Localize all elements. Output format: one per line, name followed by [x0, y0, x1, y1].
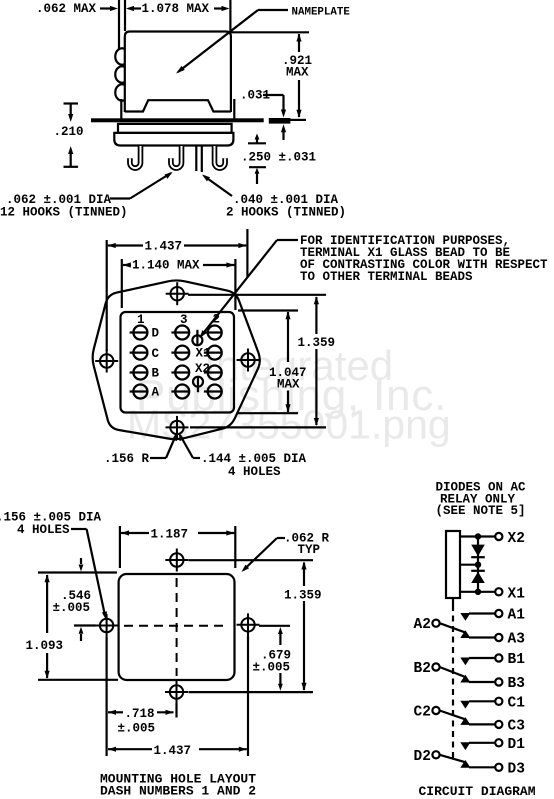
svg-text:±.005: ±.005: [118, 722, 156, 736]
svg-text:1.140 MAX: 1.140 MAX: [132, 259, 200, 273]
terminal A3: [495, 634, 502, 641]
dim 1.093: [46, 575, 48, 633]
wire coil top to X2: [460, 535, 495, 537]
svg-text:MAX: MAX: [286, 66, 309, 80]
dim .718: [108, 710, 116, 715]
ext line square left up: [121, 259, 123, 308]
terminal C1: [495, 698, 502, 705]
ext line sq right up: [234, 526, 236, 568]
contact D1 fixed NO: [460, 742, 470, 750]
base plate: [114, 133, 233, 146]
svg-text:B: B: [152, 367, 160, 381]
svg-text:1.187: 1.187: [151, 528, 189, 542]
dim 1.078 MAX arrows: [126, 6, 134, 11]
extension line can right edge: [229, 0, 231, 32]
svg-text:MAX: MAX: [277, 378, 300, 392]
relay can outline: [125, 32, 231, 113]
terminal A1: [495, 610, 502, 617]
armature linkage dashed: [452, 605, 454, 758]
svg-text:A2: A2: [414, 617, 431, 633]
terminal C3: [495, 721, 502, 728]
diode CR2: [471, 570, 485, 572]
ext right hole down: [247, 636, 249, 756]
leader .062 R: [277, 537, 285, 539]
terminal A2: [208, 385, 222, 399]
terminal B3: [175, 366, 189, 380]
ext right hole right: [259, 625, 290, 627]
terminal B3: [495, 678, 502, 685]
svg-text:2 HOOKS (TINNED): 2 HOOKS (TINNED): [226, 206, 346, 220]
junction dot bottom: [475, 589, 481, 595]
terminal A2: [432, 620, 439, 627]
terminal D1: [495, 739, 502, 746]
svg-text:.718: .718: [125, 707, 155, 721]
terminal B1: [133, 366, 147, 380]
svg-text:D: D: [152, 327, 160, 341]
leader note to X1 bead: [277, 239, 298, 241]
svg-text:C3: C3: [508, 718, 525, 734]
movable arm C: [440, 711, 465, 720]
svg-text:±.005: ±.005: [53, 601, 91, 615]
dim .546: [79, 565, 84, 572]
svg-text:1.093: 1.093: [26, 639, 64, 653]
dim .250 lower arrow: [249, 166, 266, 168]
svg-text:NAMEPLATE: NAMEPLATE: [292, 7, 351, 19]
svg-text:X1: X1: [196, 347, 211, 361]
layout hole left: [100, 619, 113, 632]
mounting hole top: [171, 287, 184, 300]
junction dot middle: [475, 562, 481, 568]
dim 1.359 mid: [315, 297, 317, 334]
dim 1.187: [121, 530, 129, 535]
svg-text:B2: B2: [414, 661, 431, 677]
ext line left hole up: [106, 240, 108, 351]
dim 1.359 layout: [303, 563, 305, 587]
svg-text:B1: B1: [508, 652, 526, 668]
horizontal centerline dashed: [124, 625, 229, 627]
svg-text:.250 ±.031: .250 ±.031: [241, 151, 316, 165]
dim leader .062 arrow: [100, 7, 112, 9]
svg-text:A1: A1: [508, 608, 526, 624]
svg-text:D1: D1: [508, 737, 526, 753]
svg-text:1.359: 1.359: [284, 589, 322, 603]
side hook bump 1: [115, 48, 125, 64]
glass bead X1 terminal: [192, 335, 202, 345]
svg-text:TYP: TYP: [298, 543, 321, 557]
terminal B1: [495, 654, 502, 661]
svg-text:DASH NUMBERS 1 AND 2: DASH NUMBERS 1 AND 2: [100, 784, 256, 799]
contact B1 fixed NO: [460, 658, 470, 666]
movable arm A: [440, 623, 465, 632]
svg-text:1.359: 1.359: [298, 336, 336, 350]
svg-text:X1: X1: [508, 586, 526, 602]
terminal D1: [133, 326, 147, 340]
movable arm B: [440, 667, 465, 677]
terminal X1: [495, 588, 502, 595]
svg-text:1.437: 1.437: [154, 744, 192, 758]
svg-text:D3: D3: [508, 761, 525, 777]
mounting hole bottom: [170, 421, 183, 434]
ext line square bottom right: [238, 412, 298, 414]
side hook bump 2: [115, 66, 125, 82]
mounting hole left: [100, 354, 113, 367]
contact A3 fixed NC: [460, 630, 470, 638]
case outline octagon: [93, 280, 260, 439]
ext sq top left: [38, 571, 117, 573]
leader 12 hooks: [110, 197, 130, 199]
terminal C3: [175, 346, 189, 360]
mounting flange bar: [91, 118, 264, 122]
extension line left of side bumps: [118, 0, 120, 49]
svg-text:1.078 MAX: 1.078 MAX: [142, 2, 210, 16]
terminal C2: [208, 346, 222, 360]
hook 4: [215, 146, 226, 168]
svg-text:A: A: [152, 386, 160, 400]
terminal A3: [175, 385, 189, 399]
ext sq bottom left: [38, 679, 118, 681]
terminal B2: [432, 663, 439, 670]
extension line can left edge: [124, 0, 126, 31]
svg-text:1.437: 1.437: [145, 240, 183, 254]
ext bottom hole down: [175, 703, 177, 718]
glass bead X2 terminal: [193, 377, 203, 387]
svg-text:4 HOLES: 4 HOLES: [228, 465, 281, 479]
layout hole top: [170, 553, 183, 566]
terminal square: [121, 312, 235, 413]
ext line square right up: [234, 259, 236, 310]
dim 1.437 layout: [108, 747, 116, 752]
contact C3 fixed NC: [460, 717, 470, 725]
svg-text:A3: A3: [508, 632, 525, 648]
coil K1: [446, 531, 460, 598]
ext line sq left up: [119, 526, 121, 568]
side hook bump 3: [115, 84, 125, 100]
ext bottom hole right: [189, 691, 314, 693]
svg-text:D2: D2: [414, 749, 431, 765]
left skirt edge: [120, 99, 122, 119]
vertical centerline dashed: [176, 578, 178, 676]
leader 2 hooks: [204, 176, 232, 196]
svg-text:B3: B3: [508, 676, 525, 692]
junction dot top: [475, 533, 481, 539]
dim 1.047 MAX mid: [287, 312, 289, 362]
dim 1.437 mid: [108, 243, 116, 248]
ext line bottom hole right: [190, 426, 326, 428]
svg-text:X2: X2: [195, 362, 210, 376]
svg-text:X2: X2: [508, 531, 525, 547]
wire coil middle tap: [460, 564, 478, 566]
ext left hole left: [74, 624, 96, 626]
dim .679: [278, 627, 283, 634]
svg-text:.156 R: .156 R: [104, 452, 150, 466]
wire coil bottom to X1: [460, 591, 495, 593]
base rect: [118, 124, 232, 133]
svg-text:TO OTHER TERMINAL BEADS: TO OTHER TERMINAL BEADS: [300, 270, 473, 284]
svg-text:C1: C1: [508, 695, 526, 711]
ext top hole right: [189, 559, 314, 561]
svg-text:(SEE NOTE 5]: (SEE NOTE 5]: [436, 504, 526, 518]
svg-text:12 HOOKS (TINNED): 12 HOOKS (TINNED): [0, 206, 128, 220]
terminal D2: [208, 326, 222, 340]
leader 4 holes: [71, 528, 87, 530]
contact C1 fixed NO: [460, 701, 470, 709]
contact D3 fixed NC: [460, 760, 470, 768]
contact B3 fixed NC: [460, 675, 470, 683]
terminal C1: [133, 346, 147, 360]
wire armature link solid: [452, 598, 454, 605]
mounting hole right: [241, 353, 254, 366]
dim .250 upper arrow: [248, 142, 266, 144]
leader .156 R: [150, 457, 166, 459]
svg-text:±.005: ±.005: [253, 661, 291, 675]
svg-text:4 HOLES: 4 HOLES: [17, 523, 70, 537]
ext line top hole right: [188, 294, 326, 296]
wire diode branch: [477, 537, 479, 592]
terminal C2: [432, 707, 439, 714]
svg-text:C2: C2: [414, 705, 431, 721]
mounting square outline: [119, 574, 235, 680]
dim .210 arrows: [64, 102, 79, 104]
terminal D2: [432, 751, 439, 758]
terminal D3: [175, 326, 189, 340]
layout hole bottom: [170, 685, 183, 698]
diode CR1: [471, 545, 485, 557]
ext left hole down: [105, 637, 107, 756]
leader .144: [193, 457, 200, 459]
movable arm D: [440, 755, 465, 762]
svg-text:.210: .210: [54, 125, 84, 139]
dim text .921 MAX: [231, 31, 309, 33]
ext line square top right: [238, 309, 298, 311]
hook 2: [171, 146, 182, 168]
terminal A1: [133, 385, 147, 399]
svg-text:C: C: [152, 347, 160, 361]
contact A1 fixed NO: [460, 613, 470, 621]
dim 1.140 MAX mid: [123, 262, 131, 267]
can bottom edge with crimp trapezoid: [125, 100, 231, 111]
svg-text:CIRCUIT DIAGRAM: CIRCUIT DIAGRAM: [419, 784, 536, 799]
terminal B2: [208, 366, 222, 380]
layout hole right: [241, 618, 254, 631]
svg-text:.062 MAX: .062 MAX: [36, 2, 97, 16]
terminal X2: [495, 533, 502, 540]
svg-text:.144 ±.005 DIA: .144 ±.005 DIA: [201, 452, 307, 466]
leader NAMEPLATE: [258, 9, 288, 11]
terminal D3: [495, 764, 502, 771]
right skirt edge: [233, 99, 235, 119]
ext line right hole up: [246, 229, 248, 278]
hook 1: [130, 146, 141, 168]
dim .031 flange piece: [269, 118, 291, 124]
X hook pin: [195, 146, 197, 172]
